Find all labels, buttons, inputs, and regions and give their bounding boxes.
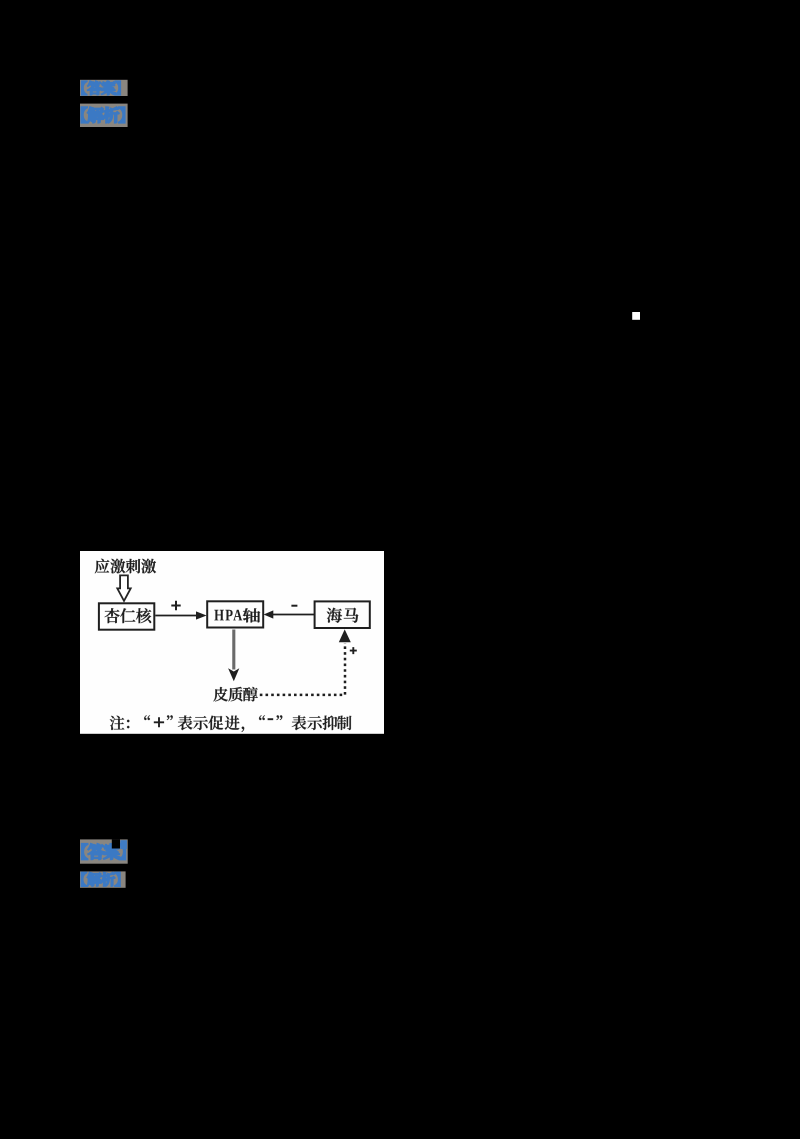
arrow 杏仁核→HPA轴 (155, 611, 206, 619)
label − inhibit (291, 605, 297, 607)
hollow down arrow stress→杏仁核 (117, 575, 130, 601)
text 杏仁核 (105, 608, 152, 623)
label + promote (171, 601, 180, 610)
arrow 海马→HPA轴 (264, 610, 315, 618)
text 皮质醇 (213, 687, 257, 702)
arrow HPA轴→皮质醇 (228, 630, 239, 682)
white square bullet (632, 312, 640, 320)
highlight label 【答案】 bottom (80, 839, 128, 863)
highlight label 【解析】 top (80, 104, 128, 127)
diagram panel background (80, 551, 384, 734)
highlight label 【解析】 bottom (80, 871, 126, 887)
box 杏仁核 (99, 603, 154, 629)
text 海马 (327, 608, 359, 623)
text HPA轴 (214, 608, 260, 622)
highlight label 【答案】 top (80, 80, 128, 96)
dotted feedback wire 皮质醇→海马 (260, 643, 345, 695)
label 应激刺激 (95, 559, 156, 574)
dotted arrowhead into 海马 (339, 629, 351, 642)
label + feedback (350, 647, 357, 654)
box 海马 (315, 601, 370, 628)
box HPA轴 (207, 601, 263, 627)
note 注："+"表示促进，"−"表示抑制 (110, 715, 352, 732)
